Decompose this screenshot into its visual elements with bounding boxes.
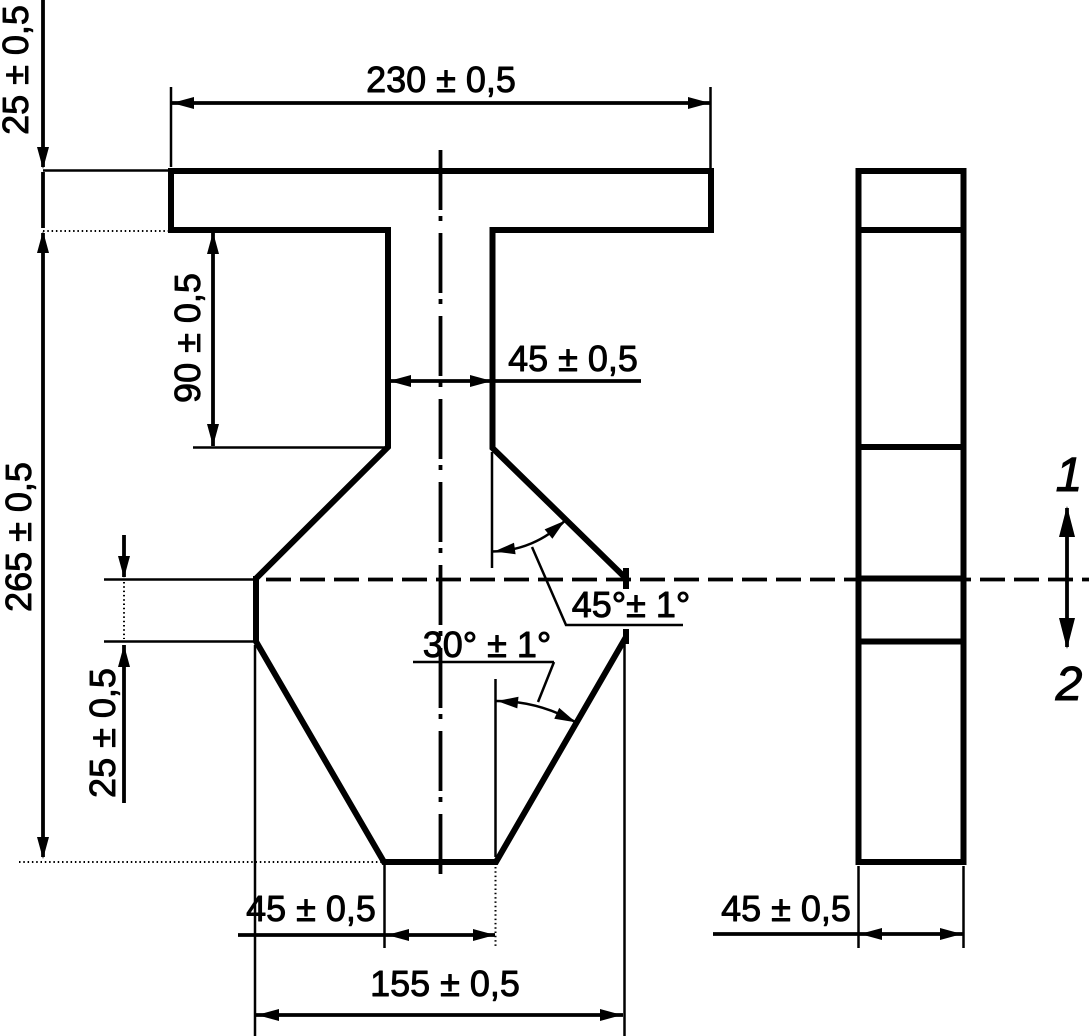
30 degree label leader — [538, 662, 554, 702]
svg-text:265 ± 0,5: 265 ± 0,5 — [0, 462, 39, 612]
svg-text:45 ± 0,5: 45 ± 0,5 — [508, 338, 638, 379]
dimension 25 top: down arrowhead — [37, 147, 49, 169]
front view: lower outline — [256, 576, 626, 862]
side view: lower corner edge line — [859, 639, 964, 645]
side view outline — [859, 171, 964, 862]
dimension 265: dimension line — [41, 233, 45, 857]
dimension 25 top: dimension line above — [41, 0, 45, 167]
dimension 25 lower-left: lower line with up arrowhead — [122, 645, 126, 803]
svg-text:30° ± 1°: 30° ± 1° — [423, 624, 552, 665]
dimension 155: left arrowhead — [257, 1009, 279, 1021]
dimension 25 lower-left: upper line with down arrowhead — [122, 535, 126, 577]
extension line top flange bottom (dotted) — [43, 230, 170, 232]
svg-text:25 ± 0,5: 25 ± 0,5 — [82, 668, 123, 798]
dimension 25 lower-left: dotted line between extensions — [123, 582, 125, 639]
45 degree label leader — [532, 547, 683, 625]
dimension 25 top: line between extensions — [41, 172, 45, 228]
side view dimension 45: left extension line — [857, 866, 860, 948]
double arrow between labels 1 and 2 — [1065, 508, 1069, 647]
30 degree label underline — [413, 661, 554, 664]
dimension 45 bottom: left extension line — [383, 865, 386, 948]
45 degree arc: west arrowhead — [494, 543, 516, 554]
30 degree arc: southeast arrowhead — [554, 708, 576, 723]
front view: right lower corner tick — [623, 629, 629, 644]
dimension 45 bottom: left arrowhead — [387, 929, 409, 941]
svg-text:155 ± 0,5: 155 ± 0,5 — [370, 963, 520, 1004]
horizontal dashed centerline — [256, 578, 1089, 582]
dimension 230: right extension line — [709, 87, 712, 168]
front view: T-shape outline upper part — [171, 171, 711, 579]
dimension 155: right extension line — [623, 643, 626, 1036]
dimension 265: down arrowhead — [37, 837, 49, 859]
svg-text:90 ± 0,5: 90 ± 0,5 — [167, 273, 208, 403]
extension line top flange top — [43, 169, 170, 172]
dimension 90: bottom extension line — [193, 446, 386, 449]
side view: web end edge line — [859, 444, 964, 450]
svg-text:45°± 1°: 45°± 1° — [572, 584, 691, 625]
45 degree reference dotted line — [491, 452, 494, 568]
svg-text:45 ± 0,5: 45 ± 0,5 — [246, 888, 376, 929]
dimension 90: dimension line — [211, 232, 215, 446]
svg-text:230 ± 0,5: 230 ± 0,5 — [366, 59, 516, 100]
svg-text:45 ± 0,5: 45 ± 0,5 — [721, 888, 851, 929]
30 degree reference line — [494, 679, 497, 857]
side view: flange bottom edge line — [859, 227, 964, 233]
dimension 25 lower-left: lower extension line — [104, 640, 256, 643]
30 degree reference dotted extension below — [495, 867, 497, 948]
dimension 45 web: right arrowhead — [470, 375, 492, 387]
side view dimension 45: right arrowhead — [940, 928, 962, 940]
vertical centerline (dash-dot) — [439, 150, 443, 878]
dimension 45 bottom: right arrowhead — [473, 929, 495, 941]
front view: right widest point tick — [623, 568, 629, 589]
dimension 155: left extension line — [254, 645, 257, 1036]
dimension 25 lower-left: upper extension line — [104, 578, 256, 581]
dimension 155: right arrowhead — [600, 1009, 622, 1021]
45 degree arc: northeast arrowhead — [545, 521, 565, 539]
svg-text:25 ± 0,5: 25 ± 0,5 — [0, 5, 36, 135]
dimension 230: left extension line — [170, 87, 173, 167]
30 degree arc with arrows — [496, 701, 576, 722]
svg-text:1: 1 — [1056, 449, 1083, 502]
side view: widest point edge line — [859, 576, 964, 582]
side view dimension 45: left arrowhead — [860, 928, 882, 940]
dimension 45 web: left arrowhead — [389, 375, 411, 387]
side view dimension 45: dimension line — [713, 932, 963, 936]
dimension 45 bottom: dimension line — [238, 933, 495, 937]
dimension 90: down arrowhead — [207, 424, 219, 446]
svg-text:2: 2 — [1055, 658, 1083, 711]
dimension 230: left arrowhead — [172, 97, 194, 109]
dimension 230: dimension line — [172, 101, 710, 105]
45 degree arc with arrows — [492, 521, 565, 552]
dimension 230: right arrowhead — [688, 97, 710, 109]
30 degree arc: west arrowhead — [497, 697, 519, 709]
dimension 90: up arrowhead — [207, 232, 219, 254]
dimension 265: up arrowhead — [37, 231, 49, 253]
dimension 155: dimension line — [256, 1013, 623, 1017]
extension line part bottom (dotted) — [19, 861, 383, 863]
dimension 45 web: dimension line — [389, 379, 641, 383]
side view dimension 45: right extension line — [962, 866, 965, 948]
